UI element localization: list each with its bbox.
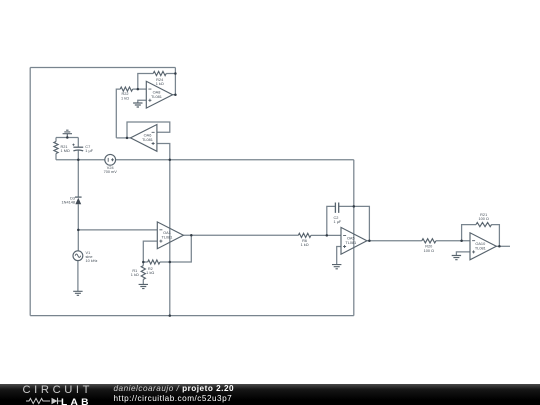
wire loop right vertical xyxy=(353,160,355,316)
wire OA8 output stub xyxy=(173,94,176,96)
source V1 xyxy=(73,251,98,263)
op-amp OA6 (mirrored) xyxy=(131,125,157,152)
svg-text:TL081: TL081 xyxy=(345,241,356,245)
wire OA6 noninverting down xyxy=(157,144,170,316)
wire C2 branch up xyxy=(327,206,335,235)
CircuitLab logo xyxy=(23,384,94,396)
wire R20 to OA10 inverting input xyxy=(436,240,470,242)
op-amp OA8 xyxy=(146,81,172,108)
capacitor C7 xyxy=(72,144,93,154)
resistor R21 xyxy=(54,142,70,154)
wire rail R21 to V24 xyxy=(56,159,105,161)
svg-text:1 kΩ: 1 kΩ xyxy=(301,243,309,247)
op-amp OA1 xyxy=(157,222,183,249)
ground OA10 xyxy=(452,256,461,260)
wire rail down to D3 xyxy=(77,160,79,197)
svg-text:1 kΩ: 1 kΩ xyxy=(146,271,154,275)
node rail-OA6 junction xyxy=(169,159,172,162)
node V1 branch junction xyxy=(77,229,80,232)
svg-text:OA6: OA6 xyxy=(144,134,152,138)
node OA8 output junction xyxy=(174,93,177,96)
wire OA5 noninverting to ground xyxy=(337,247,341,265)
svg-text:1 kΩ: 1 kΩ xyxy=(131,273,139,277)
wire V1 to ground xyxy=(77,261,79,292)
svg-text:1 kΩ: 1 kΩ xyxy=(121,96,129,100)
wire R22 to OA8 inverting input xyxy=(133,88,147,90)
node OA5 output junction xyxy=(368,240,371,243)
wire R2 left lead xyxy=(143,261,147,263)
svg-text:TL081: TL081 xyxy=(142,138,153,142)
svg-text:1 kΩ: 1 kΩ xyxy=(156,82,164,86)
ground OA8 xyxy=(133,103,142,107)
node OA8 inverting junction xyxy=(137,88,140,91)
svg-text:OA10: OA10 xyxy=(475,242,485,246)
wire R21 top lead xyxy=(55,138,57,142)
footer text xyxy=(114,384,235,404)
svg-text:1 µF: 1 µF xyxy=(85,149,93,153)
node R2 crossing junction xyxy=(169,261,172,264)
wire OA1 output to R6 xyxy=(183,234,298,236)
wire R1 to ground xyxy=(142,279,144,284)
diode D3 xyxy=(62,197,82,205)
wire R21 feedback branch xyxy=(462,225,476,241)
node R24 right junction xyxy=(174,72,177,75)
wire R2 right to output xyxy=(160,235,191,262)
node R6-C2 junction xyxy=(326,234,329,237)
resistor R2 xyxy=(146,260,160,275)
wire C7 top lead xyxy=(77,138,79,148)
ground V1 xyxy=(73,291,82,295)
wire OA10 noninverting to ground xyxy=(456,252,470,255)
svg-text:TL081: TL081 xyxy=(475,247,486,251)
wire OA8 feedback left xyxy=(138,74,153,90)
wire C2 right to output xyxy=(339,206,370,240)
node OA10 output junction xyxy=(498,245,501,248)
svg-text:100 Ω: 100 Ω xyxy=(479,217,489,221)
wire D3 to V1 xyxy=(77,204,79,251)
ground OA5 xyxy=(332,265,341,269)
svg-text:1 µF: 1 µF xyxy=(334,220,342,224)
node OA6 output junction xyxy=(126,137,129,140)
node OA10 inverting junction xyxy=(460,239,463,242)
wire R6 to OA5 inverting input xyxy=(311,234,341,236)
wire OA8 feedback right xyxy=(166,73,175,75)
wire top rail RC xyxy=(56,137,78,139)
resistor R20 xyxy=(422,239,436,253)
resistor R22 xyxy=(120,87,132,100)
node rail-C7 junction xyxy=(77,159,80,162)
ground flipped above R21C7 xyxy=(63,130,72,137)
wire V24 rail xyxy=(116,159,354,161)
svg-text:1N4148: 1N4148 xyxy=(62,200,75,204)
svg-text:TL081: TL081 xyxy=(162,236,173,240)
wire OA6 feedback xyxy=(127,122,170,138)
wire R22 feed from OA6 xyxy=(116,89,120,138)
wire OA5 output to R20 xyxy=(367,240,422,242)
svg-text:OA5: OA5 xyxy=(347,237,355,241)
resistor R21 feedback xyxy=(476,213,491,227)
resistor R1 xyxy=(131,266,146,280)
op-amp OA5 xyxy=(341,227,367,254)
resistor R6 xyxy=(298,233,311,247)
wire outer loop left xyxy=(29,68,31,316)
svg-text:1 MΩ: 1 MΩ xyxy=(61,149,70,153)
wire OA8 noninverting to ground xyxy=(138,100,147,103)
wire R21 bottom lead xyxy=(55,154,57,160)
svg-text:10 kHz: 10 kHz xyxy=(86,259,98,263)
svg-text:OA1: OA1 xyxy=(163,231,171,235)
node R2-R1 junction xyxy=(142,261,145,264)
wire main input to OA1 xyxy=(78,229,157,231)
wire R21 feedback right xyxy=(492,225,500,247)
wire OA1 noninverting branch xyxy=(143,241,157,262)
svg-text:OA8: OA8 xyxy=(153,90,161,94)
node rail-antenna junction xyxy=(66,136,69,139)
capacitor C2 xyxy=(334,203,342,225)
node C2 rail crossing junction xyxy=(353,205,356,208)
node bottom rail junction xyxy=(169,314,172,317)
wire C7 bottom lead xyxy=(77,150,79,159)
wire top into OA8 output xyxy=(174,68,176,95)
svg-text:700 mV: 700 mV xyxy=(104,170,118,174)
wire outer loop top xyxy=(30,67,175,69)
svg-text:100 Ω: 100 Ω xyxy=(424,249,434,253)
footer bar xyxy=(0,384,540,405)
wire R1 top lead xyxy=(142,262,144,266)
op-amp OA10 xyxy=(470,233,496,260)
resistor R24 xyxy=(153,71,166,86)
wire OA6 output xyxy=(116,137,130,139)
source V24 xyxy=(104,154,118,174)
svg-text:TL081: TL081 xyxy=(151,95,162,99)
wire outer loop bottom xyxy=(30,315,354,317)
node OA1 output junction xyxy=(190,234,193,237)
ground R1 xyxy=(139,284,148,288)
wire OA10 output xyxy=(496,245,510,247)
